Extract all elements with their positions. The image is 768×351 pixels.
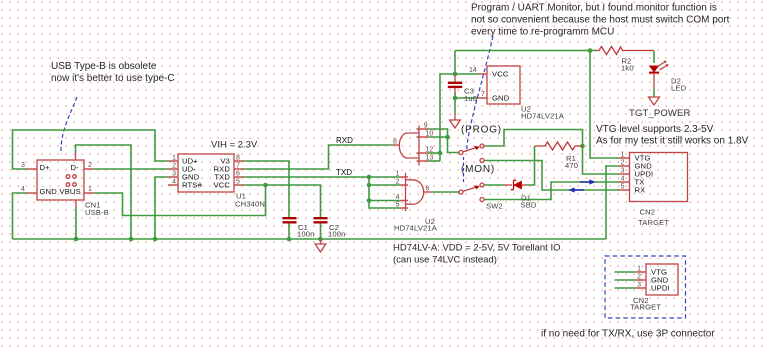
svg-text:4: 4	[396, 194, 400, 201]
svg-text:USB-B: USB-B	[85, 208, 109, 217]
IC U1 CH340N	[168, 154, 265, 209]
wire VCC rail to R2	[455, 50, 596, 52]
svg-text:USB Type-B is obsolete: USB Type-B is obsolete	[51, 61, 157, 72]
wire TXD branch pin4	[369, 200, 400, 202]
capacitor C2	[314, 218, 346, 238]
wire D- net USB to U1 UD-	[94, 168, 168, 170]
junction TGT_POWER on VCC rail	[588, 48, 593, 53]
svg-text:VCC: VCC	[492, 70, 509, 79]
svg-text:(PROG): (PROG)	[461, 125, 502, 136]
svg-text:D+: D+	[40, 163, 51, 172]
junction TXD pin4	[367, 198, 372, 203]
annotation dashed leader line to switch	[467, 36, 494, 152]
svg-text:9: 9	[424, 123, 428, 130]
wire 3P connector pin3	[615, 287, 636, 289]
annotation text USB type-B note	[51, 61, 175, 84]
wire C3 bottom to U2 GND pin7	[455, 93, 478, 98]
wire LED top	[653, 51, 655, 63]
wire PROG net to UPDI	[484, 130, 619, 175]
annotation text program/UART monitor note	[471, 3, 730, 38]
svg-text:TARGET: TARGET	[630, 303, 661, 312]
wire switch to D1	[484, 184, 504, 186]
svg-text:470: 470	[565, 161, 578, 170]
svg-text:100n: 100n	[297, 230, 315, 239]
svg-text:14: 14	[469, 67, 477, 74]
svg-text:1u0: 1u0	[464, 94, 477, 103]
svg-text:12: 12	[426, 147, 434, 154]
connector CN2 TARGET (5P)	[619, 152, 688, 228]
junction VCC at C3 top	[453, 72, 458, 77]
svg-text:5: 5	[396, 202, 400, 209]
svg-text:Program / UART Monitor, but I: Program / UART Monitor, but I found moni…	[471, 3, 717, 14]
svg-text:5: 5	[236, 179, 240, 186]
wire TXD branch pin2	[369, 184, 400, 186]
wire VCC tie to gate A inputs 12-13	[440, 74, 455, 161]
svg-text:3: 3	[621, 168, 625, 175]
svg-text:SW2: SW2	[486, 202, 503, 211]
svg-text:8: 8	[393, 139, 397, 146]
svg-text:1k0: 1k0	[621, 64, 634, 73]
wire V3 pin8 to C1	[243, 161, 289, 218]
junction TXD pin1	[367, 175, 372, 180]
power block U2 HD74LV21A	[469, 66, 565, 120]
svg-text:VIH = 2.3V: VIH = 2.3V	[211, 139, 258, 150]
wire gate A inputs 9-10 to switch common	[429, 129, 460, 153]
svg-text:1: 1	[637, 266, 641, 273]
junction shield top branch on GND rail	[129, 237, 134, 242]
svg-text:2: 2	[396, 179, 400, 186]
wire D+ net USB to U1 UD+	[13, 130, 169, 169]
wire TXD net U1 pin6 to gate inputs	[243, 176, 400, 178]
capacitor C1	[283, 218, 315, 238]
svg-text:not so convenient because the: not so convenient because the host must …	[471, 15, 730, 26]
junction GND at C3 bottom	[453, 96, 458, 101]
svg-text:6: 6	[426, 186, 430, 193]
annotation dashed leader line to USB connector	[61, 97, 77, 154]
svg-text:4: 4	[172, 179, 176, 186]
annotation text HD74LV note	[393, 243, 560, 266]
wire USB shield top to rail	[76, 145, 132, 239]
junction gate A pin 12 on VCC tie	[438, 151, 443, 156]
wire USB shield bottom to rail	[75, 207, 77, 239]
svg-text:HD74LV21A: HD74LV21A	[521, 111, 565, 120]
junction gate A pins 9-10	[445, 135, 450, 140]
wire D1 to R1	[527, 146, 535, 185]
resistor R1	[535, 142, 583, 170]
wire GND rail	[13, 238, 607, 240]
svg-text:TARGET: TARGET	[638, 218, 669, 227]
wire 3P connector pin1	[615, 271, 636, 273]
junction VCC branch	[263, 183, 268, 188]
svg-text:5: 5	[621, 184, 625, 191]
svg-text:GND: GND	[40, 187, 58, 196]
svg-text:RX: RX	[635, 186, 646, 195]
svg-text:TGT_POWER: TGT_POWER	[629, 108, 691, 119]
svg-text:TXD: TXD	[336, 168, 352, 177]
LED D2	[649, 61, 687, 93]
svg-text:100n: 100n	[328, 230, 346, 239]
svg-text:RTS#: RTS#	[182, 181, 203, 190]
ground symbol under C3	[450, 114, 461, 128]
capacitor C3	[448, 74, 477, 103]
junction USB shield on GND rail	[74, 237, 79, 242]
svg-text:LED: LED	[671, 84, 687, 93]
svg-text:4: 4	[21, 186, 25, 193]
svg-text:1: 1	[396, 171, 400, 178]
svg-text:8: 8	[236, 155, 240, 162]
svg-text:VTG level supports 2.3-5V: VTG level supports 2.3-5V	[596, 124, 714, 135]
svg-text:2: 2	[172, 163, 176, 170]
wire gate B output to switch common	[432, 191, 459, 193]
svg-text:1: 1	[621, 152, 625, 159]
switch SW2 pole B	[459, 183, 484, 202]
wire MON net to CN2 RX	[484, 161, 619, 191]
wire VCC pin5 to C2	[243, 185, 321, 218]
wire U2 VCC pin14	[455, 73, 478, 75]
svg-text:CH340N: CH340N	[235, 200, 265, 209]
svg-text:if no need for TX/RX, use 3P c: if no need for TX/RX, use 3P connector	[541, 329, 715, 340]
wire gate A input 13	[429, 160, 441, 162]
svg-text:13: 13	[426, 155, 434, 162]
svg-text:VCC: VCC	[214, 181, 231, 190]
wire RXD net U1 pin7 to gate output	[243, 145, 392, 169]
svg-text:2: 2	[637, 274, 641, 281]
svg-text:SBD: SBD	[521, 201, 537, 210]
svg-text:UPDI: UPDI	[651, 284, 670, 293]
wire C1 bottom to rail	[288, 223, 290, 240]
connector CN2 TARGET (3P variant)	[630, 264, 678, 312]
svg-text:1: 1	[88, 186, 92, 193]
svg-text:As for my test it still works: As for my test it still works on 1.8V	[596, 135, 749, 146]
wire gate A input 10	[429, 136, 448, 138]
alternative 3P connector dashed box	[605, 256, 686, 318]
resistor R2	[596, 47, 654, 73]
wire C3 gnd down	[454, 98, 456, 114]
svg-text:(can use 74LVC instead): (can use 74LVC instead)	[393, 255, 497, 266]
wire LED bottom to power flag	[653, 89, 655, 97]
svg-text:6: 6	[236, 171, 240, 178]
gate U2B (4-input AND)	[394, 171, 438, 233]
svg-text:7: 7	[236, 163, 240, 170]
annotation text VTG level	[596, 124, 749, 146]
svg-text:10: 10	[426, 131, 434, 138]
junction U1 GND on rail	[153, 237, 158, 242]
junction R1 on UPDI net	[580, 144, 585, 149]
wire CN2 GND to rail	[606, 166, 619, 239]
direction arrow TX (blue)	[580, 179, 596, 184]
svg-text:now it's better to use type-C: now it's better to use type-C	[51, 73, 175, 84]
switch mechanical link	[463, 157, 465, 183]
svg-text:3: 3	[21, 162, 25, 169]
wire TGT_POWER to CN2 VTG	[590, 51, 619, 159]
svg-text:3: 3	[172, 171, 176, 178]
svg-text:D-: D-	[71, 163, 80, 172]
power flag TGT_POWER	[629, 97, 691, 119]
svg-text:RXD: RXD	[336, 136, 353, 145]
svg-text:HD74LV21A: HD74LV21A	[394, 224, 438, 233]
wire TX net to CN2 TX	[484, 182, 619, 200]
wire TXD branch vertical	[369, 177, 400, 208]
svg-text:1: 1	[172, 155, 176, 162]
svg-text:7: 7	[481, 91, 485, 98]
svg-text:(MON): (MON)	[461, 164, 495, 175]
wire 3P connector pin2	[615, 279, 636, 281]
switch SW2 pole A	[459, 144, 484, 163]
svg-text:2: 2	[621, 160, 625, 167]
gate U2A (4-input AND, mirrored)	[392, 123, 434, 166]
wire gate A input 12	[429, 152, 441, 154]
wire USB GND pin4 to rail	[13, 193, 28, 239]
svg-text:4: 4	[621, 176, 625, 183]
svg-text:HD74LV-A: VDD = 2-5V, 5V Torel: HD74LV-A: VDD = 2-5V, 5V Torellant IO	[393, 243, 560, 254]
svg-text:GND: GND	[492, 94, 510, 103]
svg-text:VBUS: VBUS	[60, 187, 81, 196]
connector CN1 USB-B	[21, 153, 109, 217]
junction C1 on rail	[287, 237, 292, 242]
wire VBUS net to VCC	[94, 185, 266, 216]
junction TXD pin2	[367, 183, 372, 188]
svg-text:2: 2	[88, 162, 92, 169]
ground symbol under C2	[315, 239, 326, 252]
svg-text:3: 3	[637, 282, 641, 289]
direction arrow RX (blue)	[568, 187, 584, 192]
svg-text:CN2: CN2	[640, 208, 656, 217]
diode D1 SBD	[504, 180, 537, 209]
wire U1 GND pin3 to rail	[155, 177, 168, 239]
junction C2 on rail	[318, 237, 323, 242]
wire C2 bottom to rail	[320, 223, 322, 240]
wire VCC top rail	[454, 51, 456, 75]
